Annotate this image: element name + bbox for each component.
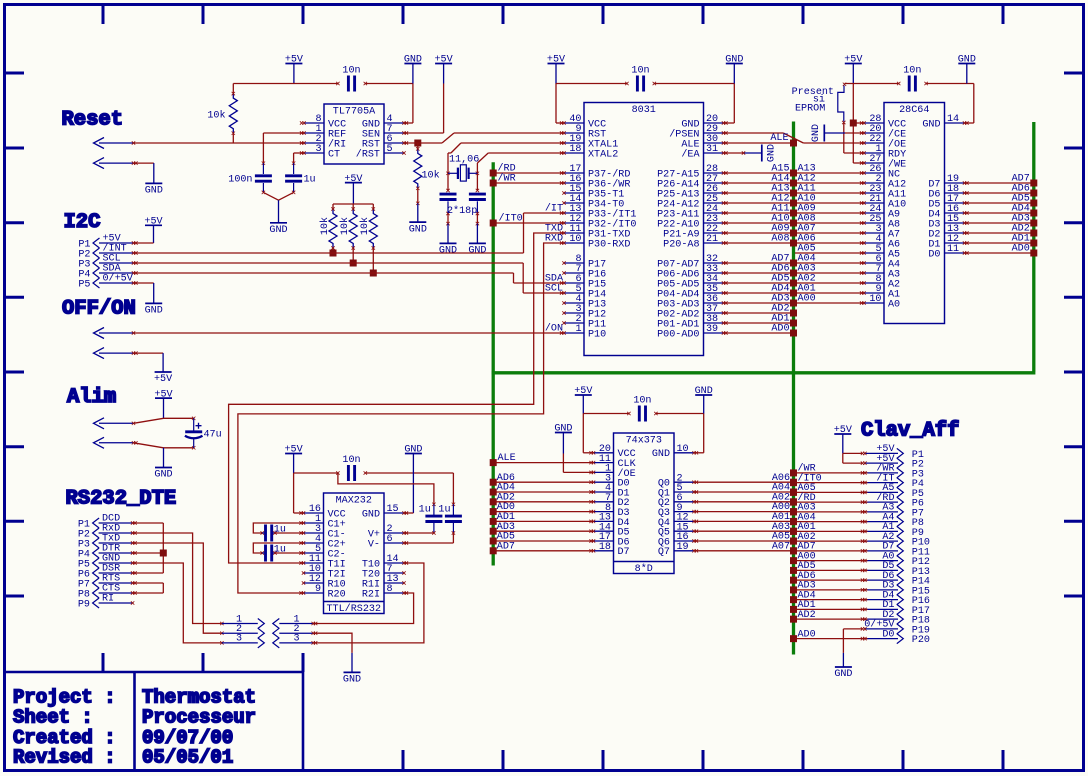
svg-text:Q7: Q7 bbox=[658, 547, 670, 558]
junction pullup bbox=[370, 270, 377, 277]
svg-text:19: 19 bbox=[677, 542, 689, 553]
capacitor C7 18p bbox=[469, 194, 486, 225]
capacitor C4 10n bbox=[625, 65, 656, 91]
label OFF/ON bbox=[62, 298, 136, 321]
wire Alim GND net bbox=[134, 443, 196, 450]
svg-text:D7: D7 bbox=[618, 547, 630, 558]
label Present si EPROM bbox=[792, 87, 834, 115]
svg-text:CT: CT bbox=[328, 149, 340, 160]
wire AD2 U3 to right bus bbox=[965, 223, 1038, 236]
svg-text:/IT0: /IT0 bbox=[499, 212, 523, 224]
svg-text:10: 10 bbox=[677, 444, 689, 455]
wire A00 bus to U3 bbox=[795, 293, 864, 304]
wire A01 bus to U3 bbox=[795, 283, 864, 294]
wire A05 bus to U3 bbox=[795, 243, 864, 254]
connector RS232 P4 DTR bbox=[78, 544, 137, 561]
svg-text:P10: P10 bbox=[588, 329, 606, 340]
svg-text:18: 18 bbox=[599, 542, 611, 553]
junction DTR bbox=[160, 550, 167, 557]
wire AD1 to bus bbox=[724, 313, 798, 326]
resistor R3 10k bbox=[319, 204, 337, 253]
wire AD5 bus to U5 D6 bbox=[490, 532, 594, 545]
svg-text:Processeur: Processeur bbox=[142, 707, 256, 729]
ground U2 /EA bbox=[742, 144, 778, 162]
capacitor C10 10n bbox=[342, 455, 367, 481]
jumper JP3 EPROM present bbox=[838, 83, 846, 125]
wire AD2 bus to U5 D2 bbox=[490, 492, 594, 505]
connector RS232 P6 DSR bbox=[78, 564, 137, 581]
wire A09 to bus bbox=[724, 223, 798, 236]
ground C7 bbox=[468, 224, 486, 257]
wire A06 U5 Q0 to bus bbox=[694, 473, 797, 486]
ground Clav_Aff bbox=[834, 667, 852, 680]
wire AD7 to bus bbox=[724, 253, 798, 266]
connector JP1 pin 1 bbox=[220, 614, 264, 628]
svg-text:SDA: SDA bbox=[545, 274, 564, 285]
capacitor C1 10n bbox=[336, 65, 367, 91]
RS232 driver U4 MAX232 bbox=[299, 493, 408, 615]
connector Clav_Aff P2 bbox=[861, 454, 924, 471]
wire Clav /RD from bus bbox=[790, 492, 868, 506]
capacitor C14 1u bbox=[262, 545, 286, 562]
svg-text:SCL: SCL bbox=[545, 284, 563, 295]
wire XTAL1 net bbox=[446, 143, 563, 192]
wire C2- net bbox=[275, 552, 304, 554]
svg-text:8: 8 bbox=[387, 584, 393, 595]
wire A04 bus to U3 bbox=[795, 253, 864, 264]
wire GND to U2 pin20 bbox=[724, 84, 735, 124]
op-amp U1 TL7705A supervisor bbox=[300, 104, 408, 164]
connector RS232 P8 CTS bbox=[78, 584, 137, 601]
wire Clav AD4 from bus bbox=[790, 590, 868, 603]
wire rail3 bbox=[845, 83, 974, 85]
wire A14 to bus bbox=[724, 173, 798, 186]
label SCL bbox=[545, 284, 563, 295]
wire A12 to bus bbox=[724, 193, 798, 206]
svg-text:0/+5V: 0/+5V bbox=[103, 273, 133, 285]
svg-text:ALE: ALE bbox=[498, 453, 516, 464]
connector Clav_Aff P4 bbox=[861, 472, 924, 490]
svg-text:9: 9 bbox=[315, 584, 321, 595]
svg-text:AD7: AD7 bbox=[497, 541, 515, 552]
wire Clav A03 from bus bbox=[790, 503, 868, 516]
wire A08 bus to U3 bbox=[795, 213, 864, 224]
svg-text:EPROM: EPROM bbox=[795, 104, 825, 115]
wire rail1 +5V side bbox=[233, 83, 413, 85]
wire /CE net bbox=[845, 132, 864, 134]
capacitor C9 10n bbox=[633, 395, 657, 421]
wire /RD net bbox=[490, 162, 564, 176]
+5V supply SEN bbox=[435, 55, 453, 84]
wire RST net bbox=[404, 133, 564, 143]
+5V supply I2C bbox=[144, 217, 162, 244]
ground rail2 bbox=[725, 55, 743, 84]
connector Reset arrow 2 bbox=[94, 158, 138, 169]
wire /WR net bbox=[490, 172, 564, 186]
svg-text:P20-A8: P20-A8 bbox=[663, 239, 699, 250]
wire A02 bus to U3 bbox=[795, 273, 864, 284]
wire /EA net bbox=[724, 152, 744, 154]
resistor R5 10k bbox=[359, 204, 377, 273]
+5V supply rail3 bbox=[844, 55, 862, 84]
ground JP2 bbox=[343, 672, 361, 685]
svg-text:GND: GND bbox=[767, 144, 778, 162]
svg-text:14: 14 bbox=[947, 114, 959, 125]
svg-text:11: 11 bbox=[947, 244, 959, 255]
connector RS232 P3 TxD bbox=[78, 534, 137, 551]
+5V supply OFF/ON bbox=[154, 372, 172, 385]
connector Clav_Aff P3 bbox=[861, 463, 924, 481]
svg-text:GND: GND bbox=[145, 306, 163, 317]
connector Reset arrow 1 bbox=[94, 138, 136, 149]
svg-text:GND: GND bbox=[468, 246, 486, 257]
svg-text:10n: 10n bbox=[631, 65, 649, 76]
svg-text:1u: 1u bbox=[438, 505, 450, 516]
connector JP2 pin 2 bbox=[273, 624, 318, 638]
connector OFF/ON arrow2 bbox=[94, 348, 138, 359]
svg-text:GND: GND bbox=[834, 669, 852, 680]
svg-text:1u: 1u bbox=[419, 505, 431, 516]
+5V supply Alim bbox=[154, 389, 172, 418]
svg-text:ALE: ALE bbox=[770, 133, 788, 144]
svg-text:R20: R20 bbox=[328, 589, 346, 600]
title block text bbox=[13, 687, 256, 769]
wire Clav A04 from bus bbox=[790, 512, 868, 525]
crystal Q1 11,06 bbox=[448, 155, 479, 182]
connector I2C P3 bbox=[78, 254, 137, 271]
resistor R1 10k bbox=[207, 84, 237, 144]
wire +5V to U2 VCC bbox=[556, 84, 564, 124]
connector RS232 P1 DCD bbox=[78, 514, 137, 531]
wire A11 to bus bbox=[724, 203, 798, 216]
resistor R2 10k bbox=[414, 143, 440, 205]
wire SCL net bbox=[134, 263, 564, 293]
connector Clav_Aff P14 bbox=[861, 571, 930, 588]
wire Clav A00 from bus bbox=[790, 551, 868, 564]
junction RST/R2 bbox=[414, 140, 421, 147]
wire Clav AD7 from bus bbox=[790, 542, 868, 555]
label SDA bbox=[545, 274, 564, 285]
bus ADDR/DATA vertical left bbox=[492, 162, 495, 565]
+5V supply rail1 bbox=[285, 55, 303, 84]
ground U3 /CE bbox=[811, 124, 845, 142]
ground rail1 bbox=[404, 55, 422, 84]
connector Clav_Aff P13 bbox=[861, 561, 930, 578]
wire JP2-2 to ground bbox=[313, 633, 352, 672]
svg-text:11,06: 11,06 bbox=[449, 155, 479, 166]
svg-text:15: 15 bbox=[387, 504, 399, 515]
wire DCD/DTR/DSR loop bbox=[133, 523, 164, 573]
svg-text:Thermostat: Thermostat bbox=[142, 687, 256, 709]
svg-text:1u: 1u bbox=[274, 525, 286, 536]
svg-text:A0: A0 bbox=[888, 299, 900, 310]
wire AD3 U3 to right bus bbox=[965, 213, 1038, 226]
ground rail3 bbox=[958, 55, 976, 84]
svg-text:5: 5 bbox=[387, 144, 393, 155]
wire U1 CT to C3 bbox=[292, 153, 304, 165]
wire JP2-3 to T1O bbox=[313, 563, 424, 643]
svg-text:TTL/RS232: TTL/RS232 bbox=[326, 603, 381, 615]
connector OFF/ON arrow1 bbox=[94, 328, 136, 339]
+5V supply MAX232 bbox=[285, 445, 303, 473]
wire +5V to U5 VCC bbox=[583, 414, 593, 453]
+5V supply pullups bbox=[344, 174, 362, 204]
svg-text:Project :: Project : bbox=[13, 687, 116, 709]
svg-text:Alim: Alim bbox=[67, 386, 116, 409]
label ALE bbox=[770, 133, 788, 144]
svg-text:D0: D0 bbox=[882, 629, 894, 640]
svg-text:31: 31 bbox=[706, 144, 718, 155]
connector Clav_Aff P12 bbox=[861, 551, 930, 568]
svg-text:AD0: AD0 bbox=[771, 323, 789, 334]
wire +5V to U4 VCC bbox=[294, 473, 304, 513]
wire OFF/ON to +5V bbox=[134, 353, 164, 372]
bus ADDR/DATA vertical right bbox=[1032, 122, 1035, 372]
wire A09 bus to U3 bbox=[795, 203, 864, 214]
label Reset bbox=[62, 109, 124, 132]
wire AD0 bus to U5 D3 bbox=[490, 502, 594, 515]
wire A08 to bus bbox=[724, 233, 798, 246]
svg-text:10: 10 bbox=[869, 294, 881, 305]
svg-text:21: 21 bbox=[706, 234, 718, 245]
wire I2C P1 +5V bbox=[134, 242, 154, 244]
connector Clav_Aff P18 bbox=[861, 610, 930, 627]
wire A06 bus to U3 bbox=[795, 233, 864, 244]
svg-text:8*D: 8*D bbox=[635, 563, 653, 575]
wire A03 U5 Q5 to bus bbox=[694, 522, 797, 535]
wire pullup rail bbox=[333, 203, 373, 205]
svg-text:6: 6 bbox=[387, 534, 393, 545]
wire A00 U5 Q3 to bus bbox=[694, 502, 797, 515]
wire /IT0 net bbox=[490, 212, 564, 226]
ground rail4 bbox=[695, 386, 713, 413]
latch U5 74x373 bbox=[589, 433, 698, 575]
wire /ON net bbox=[134, 332, 564, 334]
wire A13 to bus bbox=[724, 183, 798, 196]
svg-text:10k: 10k bbox=[319, 217, 331, 235]
label Clav_Aff bbox=[861, 420, 959, 443]
svg-text:P30-RXD: P30-RXD bbox=[588, 239, 630, 250]
svg-text:GND: GND bbox=[922, 119, 940, 130]
capacitor C6 18p bbox=[440, 194, 457, 225]
svg-text:1: 1 bbox=[575, 324, 581, 335]
wire GND to U4 pin15 bbox=[404, 512, 413, 514]
svg-text:RS232_DTE: RS232_DTE bbox=[66, 488, 177, 511]
wire Clav +5V rows bbox=[843, 453, 863, 463]
wire A07 bus to U3 bbox=[795, 223, 864, 234]
svg-text:3: 3 bbox=[293, 634, 299, 645]
wire rail5 right bbox=[365, 473, 455, 506]
svg-text:GND: GND bbox=[269, 225, 287, 236]
svg-text:GND: GND bbox=[343, 675, 361, 686]
wire AD4 bus to U5 D1 bbox=[490, 483, 594, 496]
svg-text:A08: A08 bbox=[771, 233, 789, 244]
svg-text:P9: P9 bbox=[78, 599, 90, 610]
svg-text:3: 3 bbox=[315, 144, 321, 155]
wire Clav AD5 from bus bbox=[790, 561, 868, 574]
wire I2C P5 to ground bbox=[134, 283, 154, 303]
wire Clav AD1 from bus bbox=[790, 600, 868, 613]
junction pullup bbox=[330, 250, 337, 257]
wire C1+ route bbox=[253, 523, 303, 535]
wire TXD net bbox=[229, 224, 564, 563]
wire JP2-1 to R2I bbox=[313, 593, 413, 624]
wire AD5 to bus bbox=[724, 273, 798, 286]
svg-text:/RST: /RST bbox=[356, 148, 380, 160]
wire AD0 U3 to right bus bbox=[965, 243, 1038, 256]
svg-text:74x373: 74x373 bbox=[626, 436, 662, 447]
connector RS232 P2 RxD bbox=[78, 524, 137, 541]
connector Clav_Aff P17 bbox=[861, 600, 930, 617]
wire A05 U5 Q6 to bus bbox=[694, 532, 797, 545]
svg-text:Clav_Aff: Clav_Aff bbox=[861, 420, 959, 443]
ground Alim bbox=[154, 448, 172, 481]
svg-text:28C64: 28C64 bbox=[899, 105, 929, 116]
capacitor C8 47u polarized bbox=[185, 418, 222, 448]
wire XTAL2 net bbox=[476, 153, 564, 192]
connector JP1 pin 2 bbox=[220, 624, 264, 638]
svg-text:GND: GND bbox=[362, 509, 380, 520]
capacitor C13 1u bbox=[262, 525, 286, 542]
svg-text:/ON: /ON bbox=[545, 323, 563, 335]
junction U3 VCC bbox=[850, 120, 857, 127]
svg-text:1u: 1u bbox=[274, 545, 286, 556]
svg-text:Revised :: Revised : bbox=[13, 747, 116, 769]
wire A11 bus to U3 bbox=[795, 183, 864, 194]
wire A04 U5 Q1 to bus bbox=[694, 483, 797, 496]
junction pullup bbox=[350, 260, 357, 267]
+5V supply rail4 bbox=[574, 386, 592, 413]
+5V supply Clav_Aff bbox=[834, 425, 852, 453]
wire SDA net bbox=[134, 273, 564, 283]
bus ADDR/DATA horizontal bbox=[492, 371, 1036, 374]
svg-text:10k: 10k bbox=[422, 170, 440, 182]
svg-text:10n: 10n bbox=[903, 65, 921, 76]
wire rail4 right bbox=[656, 413, 704, 415]
wire rail5 left bbox=[294, 471, 340, 474]
wire C2+ route bbox=[253, 543, 303, 555]
wire AD5 U3 to right bus bbox=[965, 193, 1038, 206]
connector Clav_Aff P20 bbox=[861, 629, 930, 646]
svg-text:/EA: /EA bbox=[681, 148, 700, 160]
wire A15 to bus bbox=[724, 163, 798, 176]
connector Alim arrow1 bbox=[94, 418, 136, 429]
wire ALE to bus bbox=[724, 140, 798, 147]
svg-text:GND: GND bbox=[439, 246, 457, 257]
wire A07 U5 Q7 to bus bbox=[694, 541, 797, 554]
wire RxD to jumper bbox=[133, 533, 222, 624]
wire AD3 bus to U5 D5 bbox=[490, 522, 594, 535]
connector Clav_Aff P7 bbox=[861, 503, 924, 520]
wire Alim +5V net bbox=[134, 417, 196, 424]
ground U5 /OE bbox=[554, 424, 572, 454]
connector RS232 P7 RTS bbox=[78, 574, 137, 591]
svg-text:/IT: /IT bbox=[545, 203, 563, 215]
svg-text:AD0: AD0 bbox=[798, 629, 816, 640]
svg-text:R2I: R2I bbox=[362, 589, 380, 600]
wire Clav /WR from bus bbox=[790, 463, 868, 477]
svg-text:2*18p: 2*18p bbox=[447, 205, 477, 217]
connector I2C P5 bbox=[78, 273, 137, 291]
wire A01 U5 Q4 to bus bbox=[694, 512, 797, 525]
wire A10 bus to U3 bbox=[795, 193, 864, 204]
connector Clav_Aff P8 bbox=[861, 512, 924, 529]
wire GND to U5 pin10 bbox=[694, 414, 704, 453]
connector Clav_Aff P15 bbox=[861, 581, 930, 598]
wire RXD net bbox=[238, 234, 564, 593]
wire AD4 U3 to right bus bbox=[965, 203, 1038, 216]
wire GND to U3 pin14 bbox=[965, 84, 974, 124]
label RS232_DTE bbox=[66, 488, 177, 511]
svg-text:GND: GND bbox=[154, 470, 172, 481]
svg-text:/WR: /WR bbox=[498, 172, 516, 184]
svg-text:1u: 1u bbox=[304, 175, 316, 186]
svg-text:GND: GND bbox=[811, 124, 822, 142]
capacitor C3 1u bbox=[285, 163, 316, 194]
title block bbox=[5, 672, 304, 769]
svg-text:+5V: +5V bbox=[154, 374, 172, 385]
wire AD6 to bus bbox=[724, 263, 798, 276]
wire /PSEN net bbox=[724, 133, 865, 143]
wire caps to ground bbox=[263, 192, 293, 200]
wire +5V to U1 SEN pin7 bbox=[404, 84, 444, 134]
capacitor C5 10n bbox=[897, 65, 928, 91]
svg-text:47u: 47u bbox=[204, 430, 222, 441]
wire A03 bus to U3 bbox=[795, 263, 864, 274]
ground C6 bbox=[439, 224, 457, 257]
bus ADDR/DATA vertical middle bbox=[792, 122, 795, 655]
connector RS232 P5 GND bbox=[78, 554, 137, 571]
wire RTS/CTS loop bbox=[133, 583, 164, 593]
wire ALE bus to CLK bbox=[490, 453, 594, 466]
connector Clav_Aff P6 bbox=[861, 492, 924, 510]
wire Clav AD6 from bus bbox=[790, 571, 868, 584]
label 2*18p bbox=[447, 205, 477, 217]
connector I2C P1 bbox=[78, 234, 137, 251]
ground I2C P5 bbox=[145, 303, 163, 316]
wire U1 REF to C2 bbox=[262, 133, 304, 165]
connector Clav_Aff P1 bbox=[861, 444, 924, 461]
resistor R4 10k bbox=[339, 204, 357, 263]
wire +5V to U3 VCC and /WE bbox=[853, 84, 864, 164]
wire V+ net bbox=[404, 532, 434, 534]
svg-text:A07: A07 bbox=[772, 541, 790, 552]
capacitor C2 100n bbox=[228, 163, 272, 194]
capacitor C12 1u bbox=[438, 504, 462, 534]
connector Clav_Aff P19 bbox=[861, 619, 930, 637]
svg-text:RI: RI bbox=[102, 594, 114, 605]
wire AD7 U3 to right bus bbox=[965, 173, 1038, 186]
wire C1- net bbox=[275, 532, 304, 534]
wire Clav AD2 from bus bbox=[790, 610, 868, 623]
svg-text:10k: 10k bbox=[339, 217, 351, 235]
+5V supply rail2 bbox=[547, 55, 565, 84]
svg-text:V-: V- bbox=[368, 539, 380, 550]
wire GND P5 to jumper bbox=[133, 563, 222, 643]
wire jumper to U3 RDY bbox=[844, 123, 864, 153]
wire rail2 bbox=[556, 83, 734, 85]
wire V- net bbox=[404, 533, 453, 543]
ground Reset bbox=[145, 183, 163, 196]
connector JP2 pin 3 bbox=[273, 634, 318, 648]
svg-text:XTAL2: XTAL2 bbox=[588, 149, 618, 160]
connector Clav_Aff P11 bbox=[861, 542, 930, 559]
wire A13 bus to U3 bbox=[795, 163, 864, 174]
svg-text:18: 18 bbox=[569, 144, 581, 155]
connector I2C P2 bbox=[78, 243, 137, 261]
ground MAX232 bbox=[404, 445, 422, 513]
wire Clav AD3 from bus bbox=[790, 581, 868, 594]
